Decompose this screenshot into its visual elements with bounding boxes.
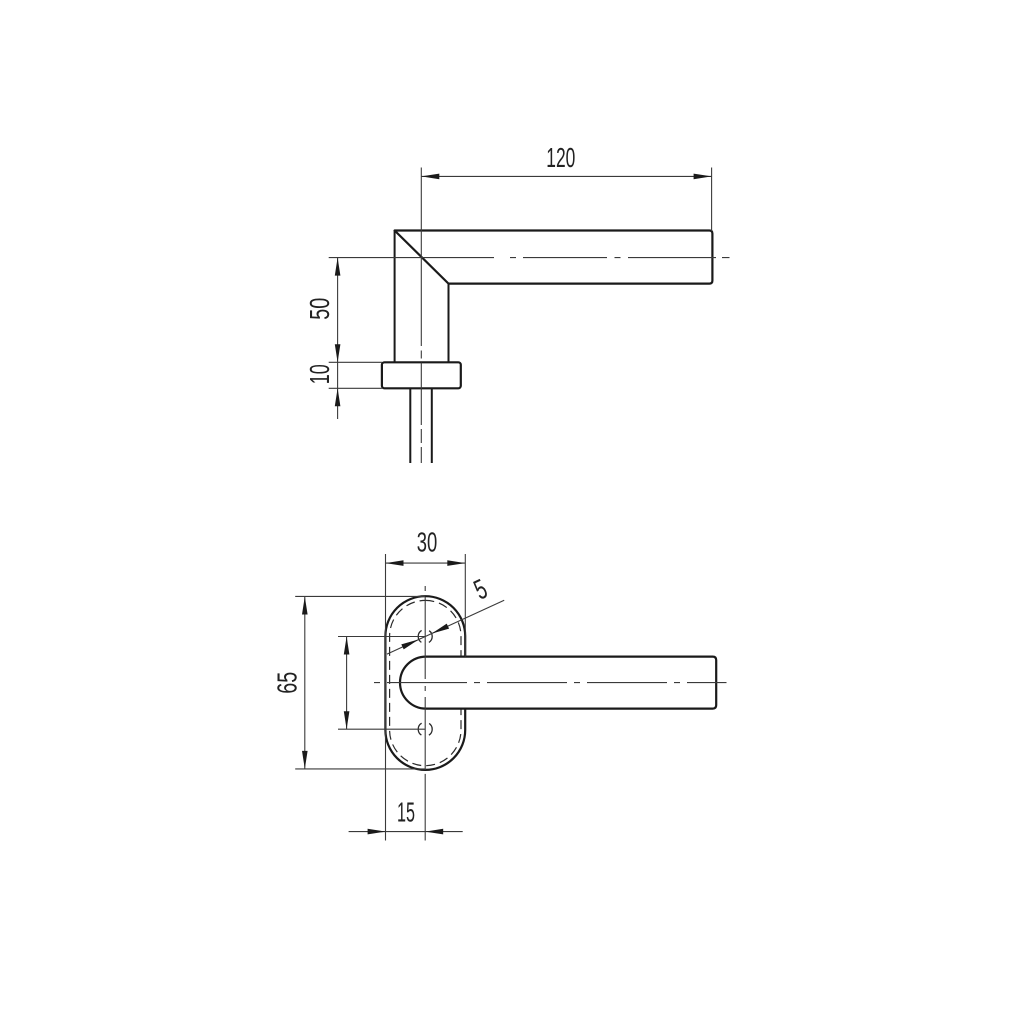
arrow 15 right (425, 829, 443, 835)
dimension line 65 (304, 597, 306, 769)
extension line 15 right (424, 774, 426, 841)
horizontal centerline top view (329, 257, 730, 259)
arrow 50 down (335, 344, 341, 362)
extension line 30 left / 15 left (long) (385, 554, 387, 841)
arrow 15 left (368, 829, 386, 835)
arrow 30 right (447, 560, 465, 566)
leader arrow upper-right (432, 624, 450, 634)
neck right edge (448, 284, 450, 363)
oval rosette inner dashed line (390, 600, 461, 765)
vertical centerline front view (424, 586, 426, 770)
extension line 120 left (420, 168, 422, 347)
spindle right edge (431, 388, 433, 463)
arrow 10 up (335, 388, 341, 406)
rosette extension line bottom (329, 387, 382, 389)
screw hole lower (418, 722, 432, 736)
oval rosette front view (385, 596, 465, 770)
svg-text:50: 50 (304, 298, 335, 320)
arrow 65 up (302, 597, 308, 615)
leader arrow lower-left (401, 639, 419, 649)
extension line 65 top (295, 595, 425, 597)
spindle left edge (409, 388, 411, 463)
dimension line 50/10 (337, 258, 339, 419)
arrow 120 right (694, 174, 712, 180)
arrow 120 left (421, 174, 439, 180)
arrow hole-dim down (344, 711, 350, 729)
horizontal centerline front view (374, 682, 727, 684)
arrow 50 up (335, 258, 341, 276)
arrow hole-dim up (344, 637, 350, 655)
handle bar top view (395, 231, 713, 284)
rosette extension line top (329, 361, 382, 363)
svg-text:65: 65 (271, 672, 302, 694)
dimension line 120 (421, 175, 711, 177)
neck left edge (394, 231, 396, 363)
arrow 30 left (386, 560, 404, 566)
arrow 65 down (302, 751, 308, 769)
svg-text:10: 10 (304, 364, 335, 384)
dimension line 30 (386, 562, 466, 564)
extension line hole upper (338, 636, 425, 638)
vertical centerline top view (420, 351, 422, 464)
svg-text:120: 120 (546, 142, 575, 173)
leader line 5 (387, 600, 504, 654)
rosette top view (382, 362, 461, 388)
svg-text:30: 30 (417, 527, 438, 558)
handle front view (400, 657, 716, 709)
extension line 65 bottom (295, 768, 425, 770)
extension line 120 right (711, 168, 713, 232)
dimension line 15 (349, 831, 463, 833)
extension line hole lower (338, 728, 425, 730)
hole distance dimension line (346, 637, 348, 730)
extension line 30 right (464, 554, 466, 657)
screw hole upper (418, 630, 432, 644)
svg-text:15: 15 (397, 797, 415, 828)
